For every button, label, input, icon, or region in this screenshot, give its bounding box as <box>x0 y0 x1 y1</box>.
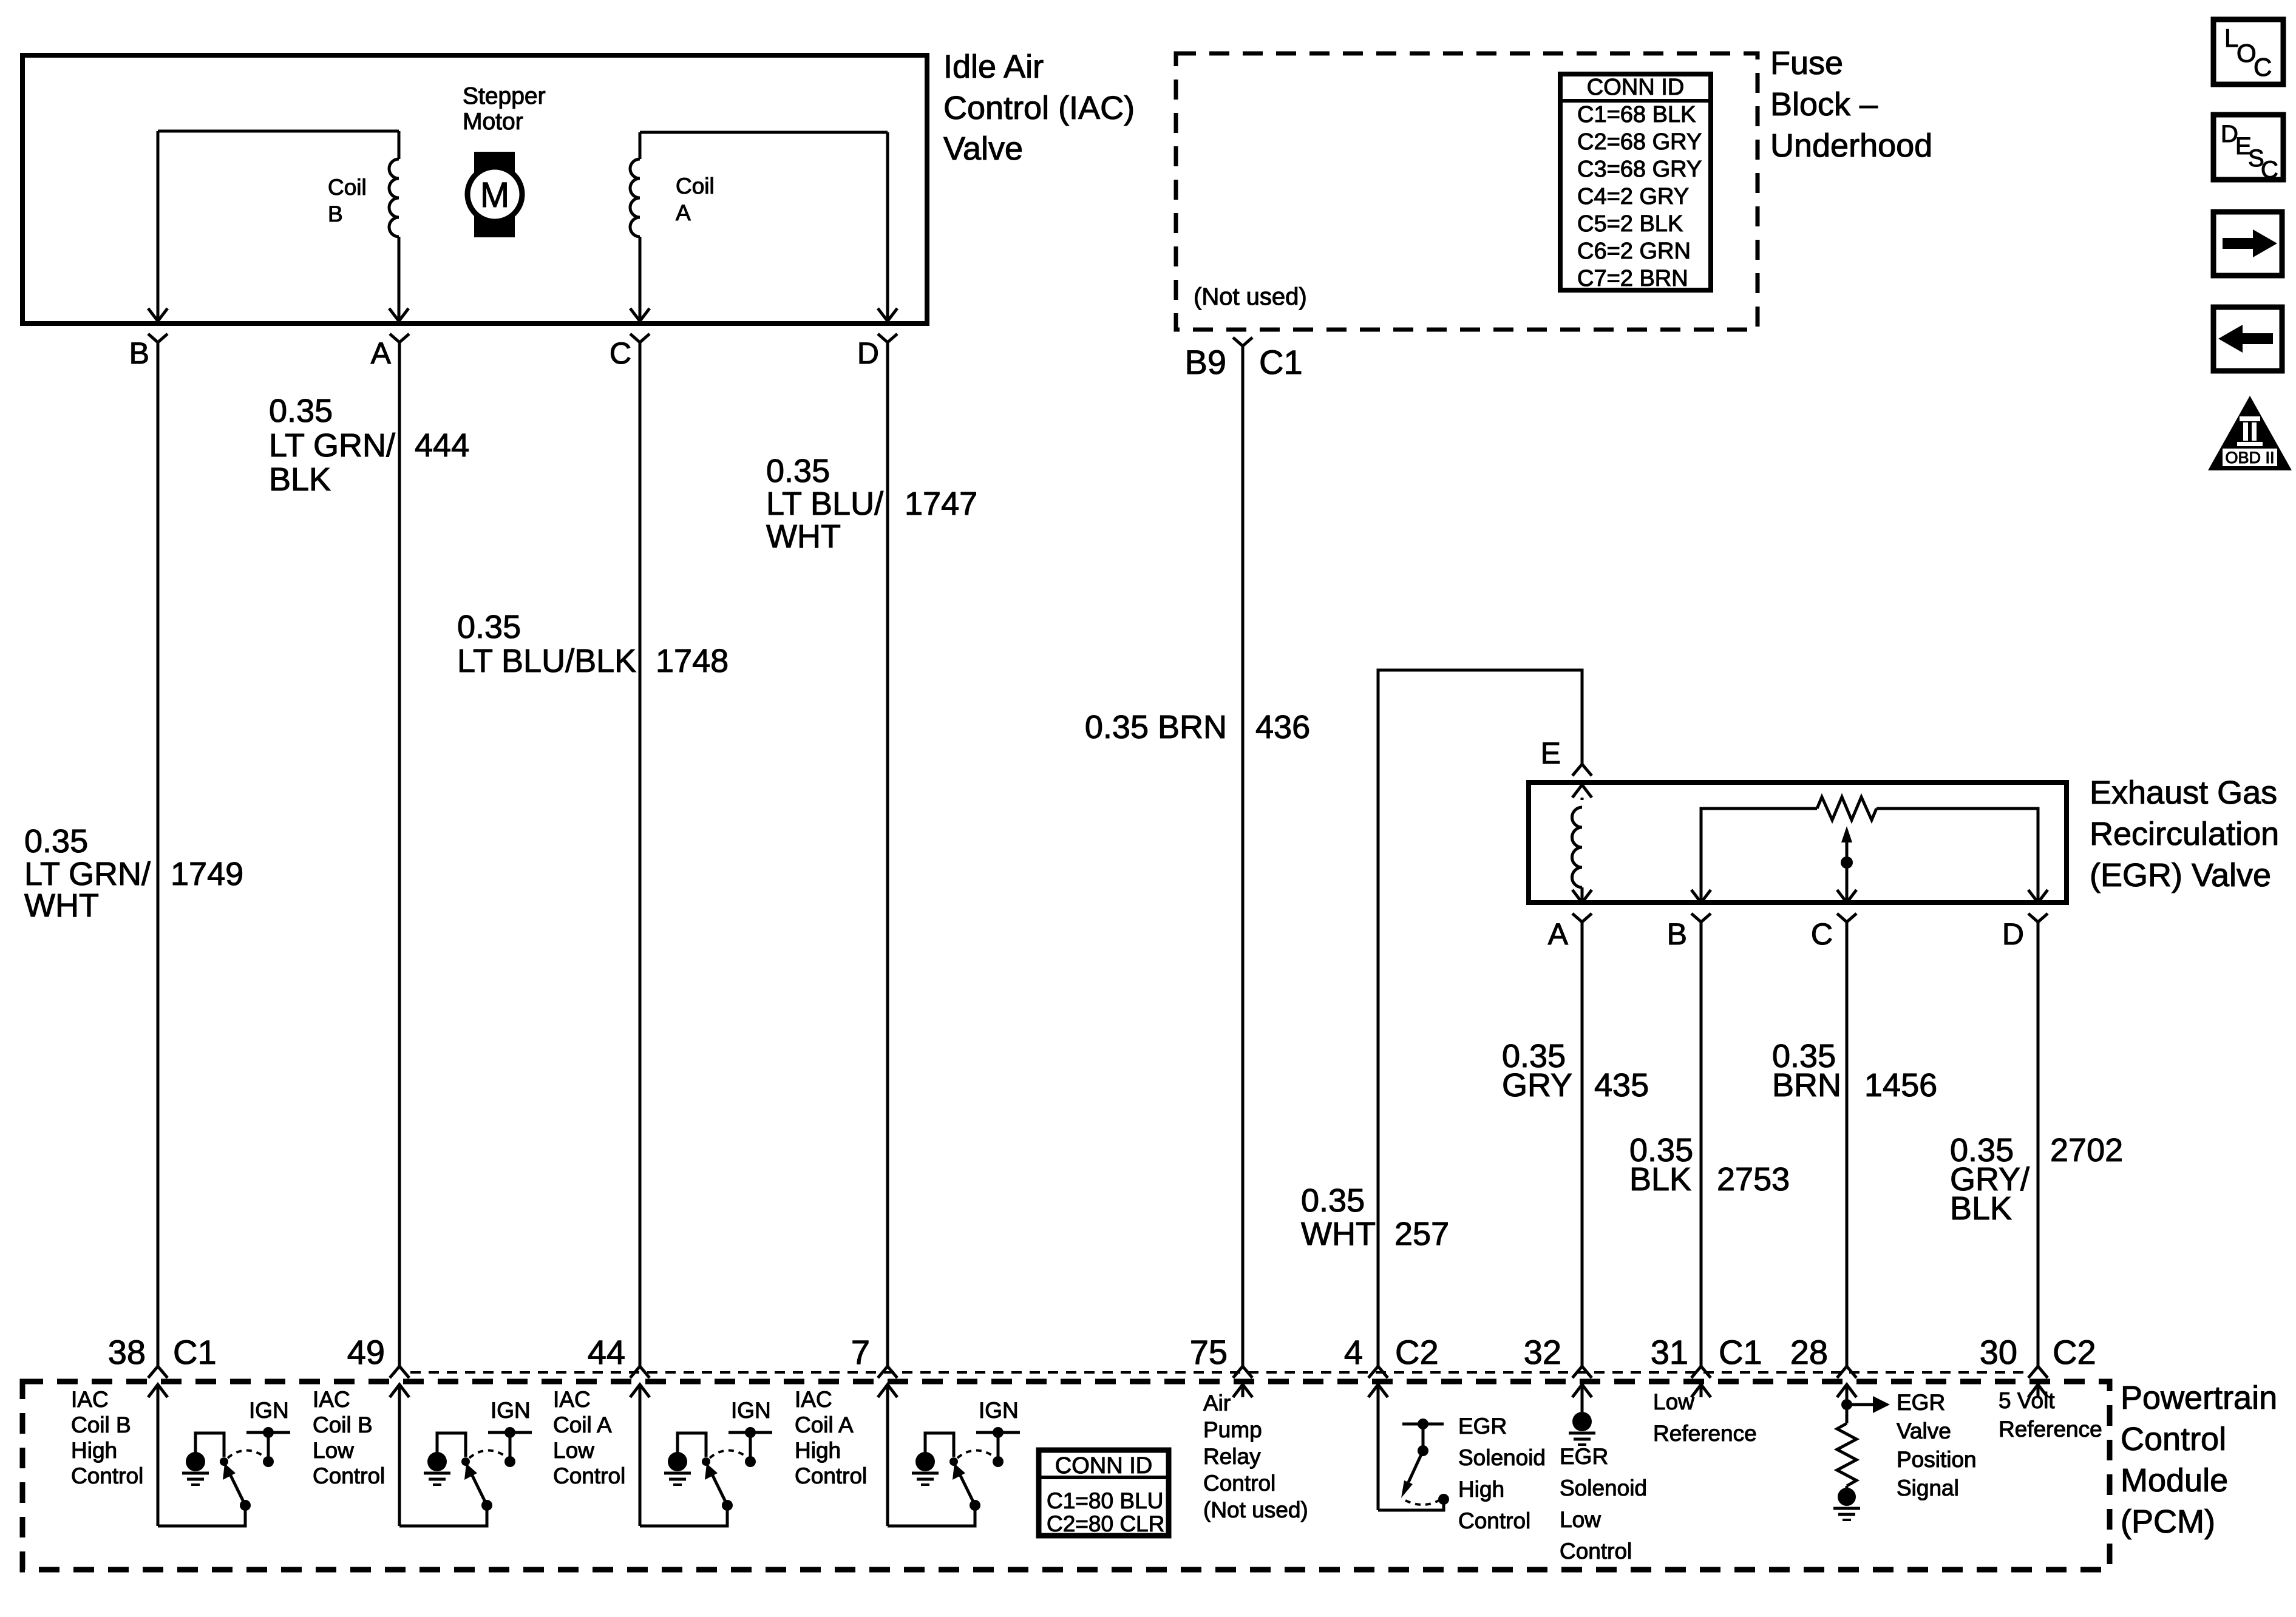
svg-text:Stepper: Stepper <box>463 83 546 109</box>
svg-text:Control: Control <box>1458 1508 1530 1533</box>
svg-text:Motor: Motor <box>463 109 523 135</box>
svg-text:Low: Low <box>313 1438 354 1463</box>
svg-text:EGR: EGR <box>1560 1444 1608 1469</box>
svg-text:436: 436 <box>1255 709 1310 745</box>
svg-text:Fuse: Fuse <box>1770 45 1843 81</box>
svg-text:Underhood: Underhood <box>1770 127 1932 164</box>
svg-text:D: D <box>2002 917 2024 951</box>
svg-text:BLK: BLK <box>1950 1190 2012 1227</box>
svg-text:C3=68 GRY: C3=68 GRY <box>1577 157 1702 182</box>
svg-text:E: E <box>1541 736 1561 770</box>
svg-text:0.35: 0.35 <box>1301 1182 1365 1219</box>
svg-text:Coil A: Coil A <box>553 1412 612 1437</box>
svg-text:Recirculation: Recirculation <box>2090 816 2279 852</box>
svg-text:Signal: Signal <box>1897 1476 1959 1500</box>
svg-text:IGN: IGN <box>979 1398 1019 1423</box>
svg-text:GRY: GRY <box>1502 1067 1572 1103</box>
svg-text:Control: Control <box>1203 1471 1275 1496</box>
svg-text:0.35: 0.35 <box>457 609 521 645</box>
svg-text:M: M <box>480 175 509 215</box>
svg-text:C1: C1 <box>173 1333 217 1371</box>
svg-text:Coil A: Coil A <box>795 1412 854 1437</box>
svg-text:WHT: WHT <box>24 887 99 924</box>
svg-text:44: 44 <box>588 1333 625 1371</box>
svg-text:IGN: IGN <box>731 1398 771 1423</box>
svg-text:CONN ID: CONN ID <box>1055 1453 1152 1479</box>
svg-text:C2=80 CLR: C2=80 CLR <box>1047 1511 1164 1536</box>
svg-text:Control: Control <box>2121 1421 2226 1457</box>
svg-text:30: 30 <box>1980 1333 2017 1371</box>
svg-text:D: D <box>857 336 879 370</box>
svg-text:Coil: Coil <box>676 174 715 198</box>
svg-text:C: C <box>1811 917 1833 951</box>
svg-text:(Not used): (Not used) <box>1194 283 1307 310</box>
svg-text:38: 38 <box>108 1333 146 1371</box>
svg-text:32: 32 <box>1524 1333 1561 1371</box>
svg-text:0.35: 0.35 <box>269 393 333 429</box>
svg-text:IAC: IAC <box>553 1387 591 1412</box>
svg-text:BRN: BRN <box>1772 1067 1841 1103</box>
svg-text:Coil: Coil <box>328 175 367 200</box>
svg-text:0.35: 0.35 <box>766 453 830 489</box>
svg-text:Control: Control <box>71 1463 143 1488</box>
svg-text:49: 49 <box>347 1333 385 1371</box>
svg-text:0.35: 0.35 <box>24 823 88 859</box>
svg-text:Control: Control <box>795 1463 867 1488</box>
svg-text:C2: C2 <box>1395 1333 1439 1371</box>
svg-text:Relay: Relay <box>1203 1444 1261 1469</box>
svg-text:257: 257 <box>1394 1216 1449 1252</box>
svg-text:WHT: WHT <box>1301 1216 1376 1252</box>
svg-text:Control: Control <box>313 1463 385 1488</box>
svg-text:Reference: Reference <box>1999 1417 2102 1442</box>
svg-text:Pump: Pump <box>1203 1417 1262 1442</box>
svg-text:EGR: EGR <box>1897 1390 1945 1415</box>
svg-text:C1: C1 <box>1719 1333 1762 1371</box>
svg-text:31: 31 <box>1651 1333 1688 1371</box>
svg-text:Control (IAC): Control (IAC) <box>943 90 1135 126</box>
svg-text:C: C <box>2254 53 2272 81</box>
svg-text:A: A <box>676 200 691 225</box>
svg-text:A: A <box>1548 917 1569 951</box>
svg-text:C1: C1 <box>1259 343 1303 381</box>
svg-text:LT GRN/: LT GRN/ <box>269 427 395 464</box>
svg-text:Low: Low <box>1560 1507 1601 1532</box>
svg-text:C2: C2 <box>2053 1333 2096 1371</box>
svg-text:1747: 1747 <box>905 486 977 522</box>
svg-text:5 Volt: 5 Volt <box>1999 1388 2055 1413</box>
svg-text:Coil B: Coil B <box>313 1412 373 1437</box>
svg-text:Solenoid: Solenoid <box>1560 1476 1647 1500</box>
svg-text:C2=68 GRY: C2=68 GRY <box>1577 129 1702 155</box>
svg-text:Control: Control <box>553 1463 625 1488</box>
svg-text:IAC: IAC <box>795 1387 832 1412</box>
svg-text:(EGR) Valve: (EGR) Valve <box>2090 857 2271 893</box>
svg-text:4: 4 <box>1344 1333 1363 1371</box>
svg-text:CONN ID: CONN ID <box>1587 75 1684 100</box>
svg-text:High: High <box>1458 1477 1504 1502</box>
svg-text:Valve: Valve <box>943 131 1023 167</box>
svg-text:WHT: WHT <box>766 518 841 555</box>
svg-text:Low: Low <box>1653 1389 1694 1414</box>
svg-text:(Not used): (Not used) <box>1203 1497 1308 1522</box>
svg-text:LT GRN/: LT GRN/ <box>24 856 151 892</box>
svg-text:1456: 1456 <box>1864 1067 1937 1103</box>
svg-text:444: 444 <box>415 427 469 464</box>
svg-text:435: 435 <box>1594 1067 1649 1103</box>
svg-text:Module: Module <box>2121 1462 2228 1499</box>
svg-text:EGR: EGR <box>1458 1414 1507 1439</box>
svg-text:High: High <box>795 1438 841 1463</box>
svg-text:C1=68 BLK: C1=68 BLK <box>1577 102 1696 127</box>
svg-text:Powertrain: Powertrain <box>2121 1380 2277 1416</box>
svg-text:C6=2 GRN: C6=2 GRN <box>1577 239 1691 264</box>
svg-text:0.35 BRN: 0.35 BRN <box>1085 709 1227 745</box>
svg-text:75: 75 <box>1190 1333 1228 1371</box>
svg-text:2702: 2702 <box>2050 1132 2123 1168</box>
svg-text:B: B <box>129 336 149 370</box>
svg-text:C: C <box>610 336 631 370</box>
svg-text:2753: 2753 <box>1717 1161 1790 1198</box>
svg-text:BLK: BLK <box>269 461 331 498</box>
svg-text:IAC: IAC <box>313 1387 350 1412</box>
svg-text:Reference: Reference <box>1653 1421 1757 1446</box>
svg-text:IAC: IAC <box>71 1387 109 1412</box>
svg-text:Solenoid: Solenoid <box>1458 1445 1546 1470</box>
svg-text:B: B <box>1667 917 1687 951</box>
svg-text:Block –: Block – <box>1770 86 1878 123</box>
svg-text:A: A <box>371 336 392 370</box>
svg-text:1748: 1748 <box>656 643 729 679</box>
svg-text:C: C <box>2261 157 2278 183</box>
svg-text:Idle Air: Idle Air <box>943 49 1044 85</box>
svg-text:OBD II: OBD II <box>2225 449 2274 467</box>
svg-text:1749: 1749 <box>171 856 243 892</box>
svg-text:28: 28 <box>1790 1333 1828 1371</box>
svg-text:Exhaust Gas: Exhaust Gas <box>2090 775 2277 811</box>
svg-text:7: 7 <box>851 1333 870 1371</box>
svg-text:Position: Position <box>1897 1447 1977 1472</box>
svg-text:High: High <box>71 1438 117 1463</box>
svg-text:Coil B: Coil B <box>71 1412 131 1437</box>
svg-text:IGN: IGN <box>249 1398 289 1423</box>
svg-text:LT BLU/BLK: LT BLU/BLK <box>457 643 636 679</box>
svg-text:B9: B9 <box>1185 343 1227 381</box>
svg-text:BLK: BLK <box>1629 1161 1691 1198</box>
svg-text:C4=2 GRY: C4=2 GRY <box>1577 184 1689 209</box>
svg-text:LT BLU/: LT BLU/ <box>766 486 883 522</box>
svg-text:Control: Control <box>1560 1539 1632 1564</box>
svg-text:C5=2 BLK: C5=2 BLK <box>1577 211 1683 237</box>
svg-text:C7=2 BRN: C7=2 BRN <box>1577 266 1688 291</box>
svg-text:Air: Air <box>1203 1391 1231 1415</box>
svg-text:C1=80 BLU: C1=80 BLU <box>1047 1488 1163 1513</box>
svg-text:Low: Low <box>553 1438 594 1463</box>
svg-text:B: B <box>328 202 343 226</box>
svg-text:IGN: IGN <box>491 1398 531 1423</box>
svg-text:Valve: Valve <box>1897 1419 1951 1443</box>
svg-text:(PCM): (PCM) <box>2121 1503 2215 1540</box>
